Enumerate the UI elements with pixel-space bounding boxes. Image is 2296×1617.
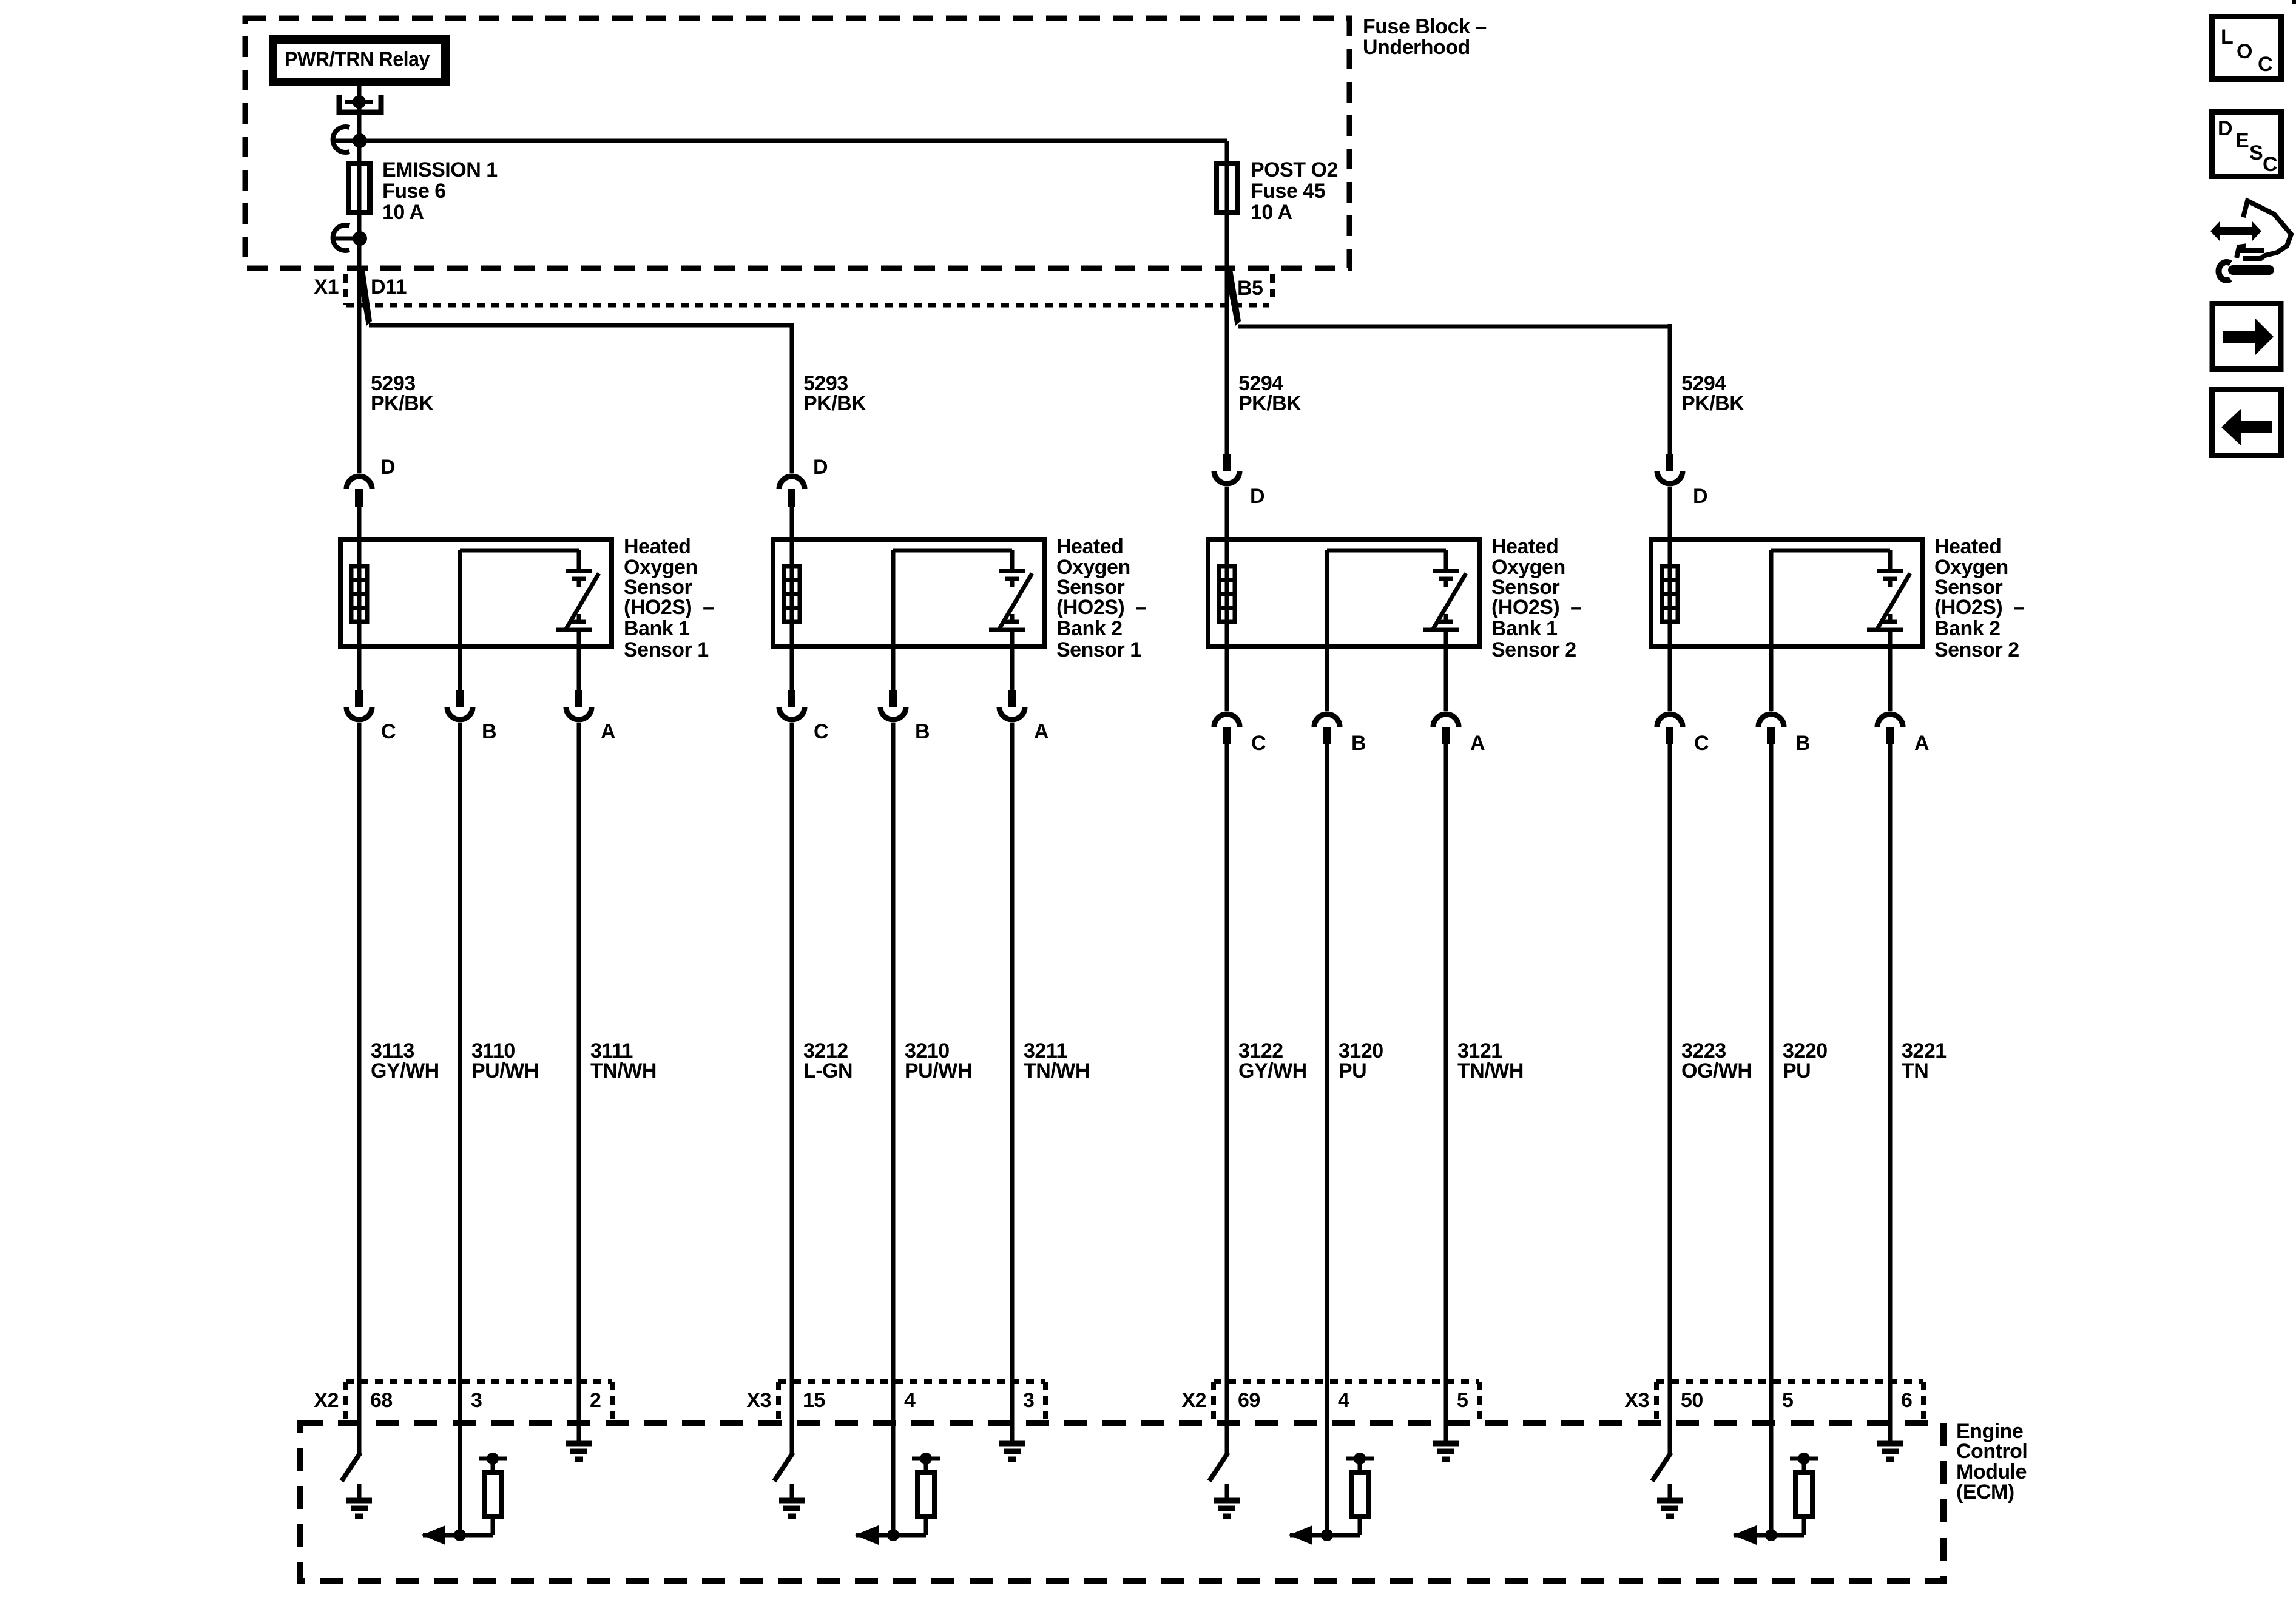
svg-text:4: 4 — [904, 1389, 916, 1412]
wire box to pin B B2S2 — [1769, 647, 1774, 711]
svg-text:B: B — [1351, 732, 1366, 755]
svg-text:D: D — [1693, 485, 1707, 508]
wire box to pin A B1S2 — [1444, 647, 1448, 711]
ground ECM signal-low ground B2S2 — [1888, 1427, 1893, 1443]
svg-text:D: D — [2218, 117, 2232, 140]
wire pin D to box B1S2 — [1225, 487, 1229, 539]
ECM pull-up resistor B2S1 — [917, 1473, 934, 1516]
wire main to HO2S B1S2 — [1225, 271, 1229, 454]
ECM resistor supply dot B1S2 — [1354, 1453, 1366, 1465]
connector pin B B1S2 — [1314, 714, 1340, 727]
svg-text:(HO2S) –: (HO2S) – — [1491, 596, 1582, 619]
svg-text:X3: X3 — [1624, 1389, 1649, 1412]
wire box to pin B B1S1 — [458, 647, 462, 690]
ECM junction dot B2S1 — [887, 1529, 899, 1541]
wire drop to HO2S B2S2 — [1668, 324, 1672, 454]
svg-text:TN/WH: TN/WH — [590, 1059, 657, 1082]
HO2S sensor box B1S2 — [1208, 539, 1479, 647]
connector row X1 D11 B5 dotted line — [346, 303, 1269, 308]
wire fuse45 to B5 — [1225, 215, 1229, 272]
svg-text:Underhood: Underhood — [1363, 36, 1470, 59]
svg-text:C: C — [2263, 153, 2277, 176]
connector pin D B2S1 — [779, 476, 805, 489]
wire kink at D11 — [357, 269, 372, 326]
relay K: PWR/TRN Relay box — [273, 39, 445, 82]
ECM connector dotted outline B1S1 — [346, 1379, 612, 1384]
svg-text:Bank 1: Bank 1 — [1491, 617, 1558, 640]
wire pin C to ECM B2S1 — [790, 723, 794, 1453]
ECM junction dot B2S2 — [1765, 1529, 1777, 1541]
svg-text:PU: PU — [1783, 1059, 1811, 1082]
wire box to pin B B1S2 — [1325, 647, 1329, 711]
ECM pull-up resistor B1S1 — [484, 1473, 501, 1516]
svg-text:PU/WH: PU/WH — [471, 1059, 539, 1082]
wire box to pin A B2S2 — [1888, 647, 1893, 711]
svg-text:5: 5 — [1782, 1389, 1793, 1412]
connector pin A B1S1 — [575, 690, 582, 707]
svg-text:D: D — [380, 456, 395, 479]
ECM signal line with arrow B2S1 — [856, 1533, 926, 1538]
svg-text:D: D — [1250, 485, 1264, 508]
ECM dashed enclosure — [300, 1423, 1943, 1581]
svg-text:Fuse 6: Fuse 6 — [382, 180, 446, 203]
sensing cell B1S2 — [1444, 550, 1448, 571]
svg-text:PK/BK: PK/BK — [1681, 392, 1744, 415]
ECM driver switch B1S1 — [342, 1453, 360, 1481]
wire branch to HO2S B2S1 — [369, 323, 792, 328]
svg-text:B: B — [482, 720, 496, 743]
in-line connector C1 (upper break) — [333, 127, 349, 152]
svg-text:4: 4 — [1338, 1389, 1349, 1412]
ground ECM switch ground B1S2 — [1225, 1484, 1229, 1501]
svg-text:L: L — [2221, 25, 2233, 49]
svg-text:X2: X2 — [1181, 1389, 1206, 1412]
wire box to pin A B1S1 — [577, 647, 581, 690]
ECM driver switch B1S2 — [1209, 1453, 1228, 1481]
svg-text:PK/BK: PK/BK — [1238, 392, 1302, 415]
HO2S sensor box B1S1 — [340, 539, 612, 647]
wire pin D to box B2S1 — [790, 507, 794, 539]
wire pin A to ECM B2S1 — [1010, 723, 1015, 1445]
wire drop to HO2S B2S1 — [790, 323, 794, 473]
heater element B1S1 — [351, 566, 367, 622]
connector pin A B1S2 — [1433, 714, 1459, 727]
wire fuse6 down — [357, 215, 362, 239]
sensing cell B2S2 — [1888, 550, 1893, 571]
in-line connector C2 (lower break) — [333, 225, 349, 251]
svg-text:6: 6 — [1901, 1389, 1912, 1412]
svg-text:(ECM): (ECM) — [1956, 1480, 2014, 1504]
wire box to pin C B1S1 — [357, 647, 362, 690]
connector pin C B1S2 — [1214, 714, 1240, 727]
icon box LOC — [2212, 17, 2281, 79]
sensing cell B1S1 — [577, 550, 581, 571]
svg-text:OG/WH: OG/WH — [1681, 1059, 1752, 1082]
svg-text:Fuse Block –: Fuse Block – — [1363, 15, 1487, 38]
svg-text:(HO2S) –: (HO2S) – — [624, 596, 714, 619]
wire pin C to ECM B1S1 — [357, 723, 362, 1453]
connector pin D B1S2 — [1223, 454, 1231, 471]
svg-text:3: 3 — [471, 1389, 482, 1412]
relay contact symbol — [339, 95, 381, 112]
junction dot node S2 — [353, 231, 367, 246]
ECM driver switch B2S2 — [1652, 1453, 1671, 1481]
sensing cell B2S1 — [1010, 550, 1015, 571]
heater element B2S1 — [784, 566, 800, 622]
svg-text:D11: D11 — [371, 275, 407, 299]
connector pin A B2S1 — [1008, 690, 1016, 707]
icon arrow back — [2221, 408, 2272, 446]
ECM driver switch B2S1 — [774, 1453, 793, 1481]
svg-text:Heated: Heated — [1491, 535, 1558, 558]
HO2S sensor box B2S2 — [1651, 539, 1922, 647]
svg-text:B: B — [915, 720, 930, 743]
ECM connector dotted outline B2S2 — [1656, 1379, 1923, 1384]
svg-text:69: 69 — [1238, 1389, 1260, 1412]
svg-text:C: C — [2258, 53, 2272, 76]
svg-text:X1: X1 — [314, 275, 339, 299]
wire pin A to ECM B2S2 — [1888, 744, 1893, 1445]
icon double arrow — [2210, 221, 2261, 241]
svg-text:5: 5 — [1457, 1389, 1468, 1412]
wire relay output — [357, 86, 362, 98]
svg-text:Heated: Heated — [1056, 535, 1123, 558]
wire branch to HO2S B2S2 — [1238, 325, 1670, 329]
svg-text:L-GN: L-GN — [803, 1059, 853, 1082]
heater element B1S2 — [1219, 566, 1235, 622]
svg-text:C: C — [814, 720, 828, 743]
svg-text:TN: TN — [1902, 1059, 1928, 1082]
svg-text:A: A — [601, 720, 615, 743]
svg-text:Heated: Heated — [624, 535, 690, 558]
internal wire B2S1 — [893, 549, 1012, 553]
connector pin B B1S1 — [456, 690, 464, 707]
svg-text:EMISSION 1: EMISSION 1 — [382, 158, 498, 181]
svg-text:PU: PU — [1339, 1059, 1366, 1082]
svg-text:GY/WH: GY/WH — [371, 1059, 439, 1082]
wire pin B to ECM B2S1 — [891, 723, 896, 1535]
svg-text:15: 15 — [803, 1389, 825, 1412]
internal wire B1S2 — [1327, 549, 1446, 553]
wire heater through box B1S1 — [357, 539, 362, 647]
svg-text:Sensor 2: Sensor 2 — [1491, 638, 1576, 661]
ECM resistor supply dot B2S1 — [920, 1453, 932, 1465]
wire heater through box B2S1 — [790, 539, 794, 647]
internal wire B1S1 — [460, 549, 579, 553]
fuse F45: POST O2 body — [1225, 141, 1229, 161]
svg-text:D: D — [813, 456, 828, 479]
svg-text:Sensor 2: Sensor 2 — [1934, 638, 2019, 661]
ECM resistor supply dot B1S1 — [487, 1453, 499, 1465]
svg-text:Control: Control — [1956, 1440, 2027, 1463]
svg-text:TN/WH: TN/WH — [1457, 1059, 1524, 1082]
svg-text:A: A — [1914, 732, 1929, 755]
svg-text:Bank 1: Bank 1 — [624, 617, 690, 640]
svg-text:Sensor 1: Sensor 1 — [1056, 638, 1141, 661]
heater element B2S2 — [1662, 566, 1678, 622]
wire pin B to ECM B2S2 — [1769, 744, 1774, 1535]
wire pin A to ECM B1S2 — [1444, 744, 1448, 1445]
ECM connector dotted outline B1S2 — [1214, 1379, 1479, 1384]
wire box to pin C B2S2 — [1668, 647, 1672, 711]
fuse F6: EMISSION 1 body — [357, 141, 362, 161]
svg-text:PK/BK: PK/BK — [371, 392, 434, 415]
svg-text:S: S — [2249, 141, 2263, 164]
svg-text:50: 50 — [1681, 1389, 1703, 1412]
page corner mark — [2292, 0, 2296, 4]
wire pin C to ECM B2S2 — [1668, 744, 1672, 1453]
svg-text:B: B — [1795, 732, 1810, 755]
svg-text:Fuse 45: Fuse 45 — [1251, 180, 1325, 203]
svg-text:(HO2S) –: (HO2S) – — [1056, 596, 1147, 619]
ground ECM switch ground B2S2 — [1668, 1484, 1672, 1501]
icon wrench — [2219, 262, 2230, 280]
svg-text:2: 2 — [590, 1389, 601, 1412]
ECM junction dot B1S2 — [1321, 1529, 1333, 1541]
svg-text:A: A — [1034, 720, 1048, 743]
wire box to pin C B2S1 — [790, 647, 794, 690]
connector pin D B2S2 — [1666, 454, 1673, 471]
wire pin D to box B1S1 — [357, 507, 362, 539]
wire fuse6 to X1-D11 — [357, 238, 362, 272]
connector pin C B2S1 — [788, 690, 795, 707]
svg-text:10 A: 10 A — [1251, 201, 1292, 224]
wire box to pin C B1S2 — [1225, 647, 1229, 711]
svg-text:Heated: Heated — [1934, 535, 2001, 558]
connector pin B B2S1 — [889, 690, 897, 707]
svg-text:O: O — [2237, 40, 2252, 63]
svg-text:GY/WH: GY/WH — [1238, 1059, 1307, 1082]
ECM signal line with arrow B1S2 — [1290, 1533, 1360, 1538]
fuse block - underhood dashed enclosure — [245, 18, 1349, 268]
ECM pull-up resistor B1S2 — [1351, 1473, 1368, 1516]
wire bus to POST O2 fuse — [360, 139, 1227, 143]
junction dot node S1 — [353, 133, 367, 148]
wire pin A to ECM B1S1 — [577, 723, 581, 1445]
svg-text:A: A — [1470, 732, 1485, 755]
ground ECM signal-low ground B1S2 — [1444, 1427, 1448, 1443]
wire relay to splice — [357, 102, 362, 141]
separator X1 — [343, 274, 348, 305]
ground ECM switch ground B1S1 — [357, 1484, 362, 1501]
wire box to pin A B2S1 — [1010, 647, 1015, 690]
connector pin A B2S2 — [1877, 714, 1903, 727]
connector pin D B1S1 — [346, 476, 372, 489]
svg-text:E: E — [2235, 129, 2249, 152]
svg-text:3: 3 — [1023, 1389, 1034, 1412]
svg-text:Sensor 1: Sensor 1 — [624, 638, 709, 661]
ECM pull-up resistor B2S2 — [1795, 1473, 1812, 1516]
ECM signal line with arrow B2S2 — [1734, 1533, 1804, 1538]
wire kink at B5 — [1224, 269, 1241, 326]
svg-text:PWR/TRN Relay: PWR/TRN Relay — [285, 48, 430, 71]
icon arrow forward — [2223, 319, 2274, 355]
ground ECM signal-low ground B2S1 — [1010, 1427, 1015, 1443]
ECM resistor supply dot B2S2 — [1798, 1453, 1810, 1465]
svg-text:PK/BK: PK/BK — [803, 392, 866, 415]
wire box to pin B B2S1 — [891, 647, 896, 690]
icon box forward — [2212, 304, 2281, 370]
svg-text:C: C — [1251, 732, 1266, 755]
svg-text:X3: X3 — [746, 1389, 771, 1412]
icon hand outline — [2243, 201, 2291, 258]
svg-text:C: C — [381, 720, 396, 743]
ECM junction dot B1S1 — [454, 1529, 466, 1541]
wire heater through box B1S2 — [1225, 539, 1229, 647]
svg-text:68: 68 — [370, 1389, 393, 1412]
internal wire B2S2 — [1771, 549, 1890, 553]
svg-text:(HO2S) –: (HO2S) – — [1934, 596, 2025, 619]
svg-text:B5: B5 — [1237, 277, 1263, 300]
ground ECM switch ground B2S1 — [790, 1484, 794, 1501]
wire pin B to ECM B1S2 — [1325, 744, 1329, 1535]
wire main to HO2S B1S1 — [357, 271, 362, 473]
connector pin C B1S1 — [355, 690, 363, 707]
icon box back — [2212, 390, 2281, 456]
ECM connector dotted outline B2S1 — [778, 1379, 1045, 1384]
wire pin B to ECM B1S1 — [458, 723, 462, 1535]
svg-text:X2: X2 — [314, 1389, 339, 1412]
connector pin C B2S2 — [1657, 714, 1683, 727]
svg-text:POST O2: POST O2 — [1251, 158, 1338, 181]
svg-text:C: C — [1694, 732, 1709, 755]
ECM signal line with arrow B1S1 — [423, 1533, 493, 1538]
wire heater through box B2S2 — [1668, 539, 1672, 647]
svg-text:Bank 2: Bank 2 — [1056, 617, 1123, 640]
icon box DESC — [2212, 112, 2281, 177]
HO2S sensor box B2S1 — [773, 539, 1044, 647]
wire pin D to box B2S2 — [1668, 487, 1672, 539]
wire pin C to ECM B1S2 — [1225, 744, 1229, 1453]
svg-text:Bank 2: Bank 2 — [1934, 617, 2001, 640]
connector pin B B2S2 — [1758, 714, 1784, 727]
svg-text:PU/WH: PU/WH — [905, 1059, 972, 1082]
svg-text:10 A: 10 A — [382, 201, 424, 224]
svg-text:TN/WH: TN/WH — [1024, 1059, 1090, 1082]
ground ECM signal-low ground B1S1 — [577, 1427, 581, 1443]
separator B5 — [1270, 274, 1275, 303]
